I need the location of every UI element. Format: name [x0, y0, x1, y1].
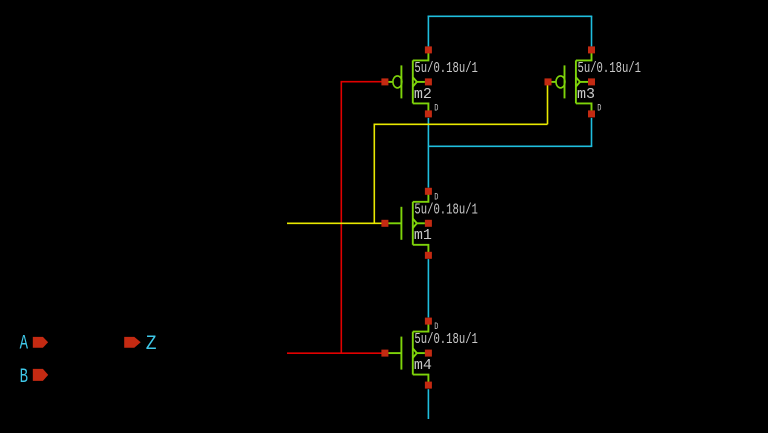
- wire Z net vertical to m3 drain: [591, 118, 593, 146]
- m4 source/drain top connector: [413, 324, 429, 332]
- pmos transistor m3: [545, 46, 642, 117]
- m1 gate pin: [381, 220, 388, 227]
- m4 gate pin: [381, 350, 388, 357]
- svg-text:D: D: [434, 103, 438, 115]
- m2 top terminal pin: [425, 46, 432, 53]
- m2 gate bar: [400, 65, 402, 98]
- m1 bulk pin: [425, 220, 432, 227]
- m3 gate pin: [545, 78, 552, 85]
- wire net A horizontal to m2 gate: [341, 81, 382, 83]
- wire Z net horizontal branch: [428, 145, 592, 147]
- m2 bulk pin: [425, 78, 432, 85]
- m2 gate pin: [381, 78, 388, 85]
- m4 gate lead: [388, 352, 401, 354]
- m1 bulk lead: [417, 222, 425, 224]
- m2 bottom terminal pin: [425, 110, 432, 117]
- m1 channel: [412, 202, 414, 245]
- wire net A vertical: [340, 82, 342, 354]
- m4 bulk lead: [417, 352, 425, 354]
- svg-text:5u/0.18u/1: 5u/0.18u/1: [578, 61, 642, 77]
- wire net B horizontal to m1 gate: [287, 222, 382, 224]
- wire net B from m3 gate down: [547, 85, 549, 125]
- wire net B horizontal upper: [374, 123, 548, 125]
- m2 bulk arrow: [413, 77, 417, 86]
- m3 bulk lead: [580, 81, 588, 83]
- m3 bulk pin: [588, 78, 595, 85]
- m3 channel: [575, 60, 577, 103]
- nmos transistor m4: [381, 318, 478, 389]
- wire Z net m2 drain to m1 drain vertical: [427, 118, 429, 188]
- input pin A arrow: [33, 337, 48, 348]
- m4 channel: [412, 332, 414, 375]
- m2 source/drain top connector: [413, 52, 429, 60]
- svg-text:5u/0.18u/1: 5u/0.18u/1: [414, 332, 478, 348]
- m3 source/drain bottom connector: [576, 103, 592, 111]
- m1 gate lead: [388, 222, 401, 224]
- m2 source/drain bottom connector: [413, 103, 429, 111]
- m3 top terminal pin: [588, 46, 595, 53]
- nmos transistor m1: [381, 188, 478, 259]
- m2 gate bubble: [393, 76, 402, 88]
- m4 bulk pin: [425, 350, 432, 357]
- m1 source/drain top connector: [413, 194, 429, 202]
- wire net A horizontal to m4 gate: [287, 352, 382, 354]
- wire VDD vertical to m2 source: [427, 16, 429, 47]
- m3 source/drain top connector: [576, 52, 592, 60]
- wire VDD top horizontal: [428, 15, 593, 17]
- m1 source/drain bottom connector: [413, 245, 429, 253]
- svg-text:m1: m1: [414, 228, 432, 244]
- m4 bulk arrow: [413, 348, 417, 357]
- m2 bulk lead: [417, 81, 425, 83]
- m3 bottom terminal pin: [588, 110, 595, 117]
- svg-text:D: D: [597, 103, 601, 115]
- wire net B vertical: [373, 124, 375, 223]
- m4 bottom terminal pin: [425, 382, 432, 389]
- wire VDD vertical to m3 source: [591, 16, 593, 46]
- wire m1 source to m4 drain: [427, 259, 429, 317]
- svg-text:D: D: [434, 191, 438, 203]
- m3 gate lead: [551, 81, 556, 83]
- wire m4 source stub down: [427, 389, 429, 419]
- m1 bottom terminal pin: [425, 252, 432, 259]
- svg-text:5u/0.18u/1: 5u/0.18u/1: [414, 202, 478, 218]
- m2 channel: [412, 60, 414, 103]
- svg-text:m3: m3: [577, 87, 595, 103]
- m4 gate bar: [400, 337, 402, 370]
- svg-text:B: B: [20, 366, 28, 389]
- input pin B arrow: [33, 369, 48, 381]
- m2 gate lead: [388, 81, 393, 83]
- pmos transistor m2: [381, 46, 478, 117]
- svg-text:A: A: [20, 333, 28, 356]
- svg-text:D: D: [434, 321, 438, 333]
- m1 bulk arrow: [413, 219, 417, 228]
- m4 source/drain bottom connector: [413, 375, 429, 383]
- svg-text:5u/0.18u/1: 5u/0.18u/1: [414, 61, 478, 77]
- m4 top terminal pin: [425, 318, 432, 325]
- svg-text:m4: m4: [414, 358, 432, 374]
- m1 top terminal pin: [425, 188, 432, 195]
- svg-text:m2: m2: [414, 87, 432, 103]
- output pin Z arrow: [124, 337, 141, 348]
- m3 gate bubble: [556, 76, 565, 88]
- m3 gate bar: [564, 65, 566, 98]
- m3 bulk arrow: [576, 77, 580, 86]
- svg-text:Z: Z: [146, 333, 157, 356]
- m1 gate bar: [400, 207, 402, 240]
